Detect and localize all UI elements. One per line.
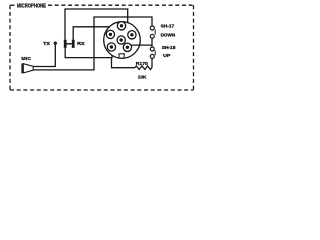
- dashed enclosure border left: [9, 5, 11, 90]
- svg-text:RX: RX: [77, 41, 85, 46]
- wire W1 top: switch left cap up, across, down to connector top: [65, 9, 128, 40]
- pushbutton DOWN actuator: [154, 30, 156, 35]
- wire W2: mic lower lead up and across to DOWN button: [33, 17, 152, 70]
- connector pin 3 right: [128, 31, 136, 39]
- dashed enclosure border bottom: [10, 89, 194, 91]
- dashed enclosure border top stub: [10, 4, 15, 6]
- connector pin 6 bottom-right: [123, 43, 131, 51]
- svg-text:UP: UP: [163, 53, 170, 58]
- wire: DOWN button bottom to junction to SH-18 top contact: [151, 38, 153, 47]
- connector pin 1 top: [117, 22, 125, 30]
- connector pin 4 center: [117, 36, 125, 44]
- connector pin 2 left: [106, 30, 114, 38]
- wire W3: switch right cap up, across to connector left: [73, 27, 109, 40]
- svg-text:TX: TX: [43, 41, 50, 46]
- svg-text:10K: 10K: [138, 74, 147, 79]
- pushbutton UP contact upper: [150, 47, 154, 51]
- dashed enclosure border right: [193, 5, 195, 90]
- wire: switch left cap bottom to connector pin E: [65, 48, 112, 58]
- connector key notch: [119, 54, 124, 58]
- svg-text:R170: R170: [136, 61, 149, 66]
- pushbutton UP contact lower: [150, 54, 154, 58]
- svg-text:DOWN: DOWN: [161, 33, 176, 38]
- connector body circle: [104, 22, 141, 59]
- pushbutton DOWN contact lower: [150, 34, 154, 38]
- PTT switch slider body: [64, 40, 75, 48]
- pushbutton DOWN contact upper: [150, 26, 154, 30]
- dashed enclosure border top: [48, 4, 194, 6]
- connector pin 5 bottom-left: [107, 43, 115, 51]
- svg-text:SH-17: SH-17: [161, 23, 175, 28]
- wire: resistor to UP button bottom contact: [151, 58, 153, 67]
- wire: connector pin F to button chain junction: [131, 44, 153, 46]
- PTT switch TX contact dot: [54, 42, 57, 45]
- microphone cartridge MIC: [21, 63, 33, 73]
- svg-text:SH-18: SH-18: [162, 45, 176, 50]
- svg-text:MIC: MIC: [21, 56, 31, 61]
- wire TX: mic upper lead to TX contact: [33, 45, 55, 67]
- resistor R170 zigzag: [135, 66, 152, 70]
- wire: branch down to resistor R170: [112, 58, 136, 68]
- pushbutton UP actuator: [154, 50, 156, 55]
- svg-text:MICROPHONE: MICROPHONE: [17, 4, 46, 10]
